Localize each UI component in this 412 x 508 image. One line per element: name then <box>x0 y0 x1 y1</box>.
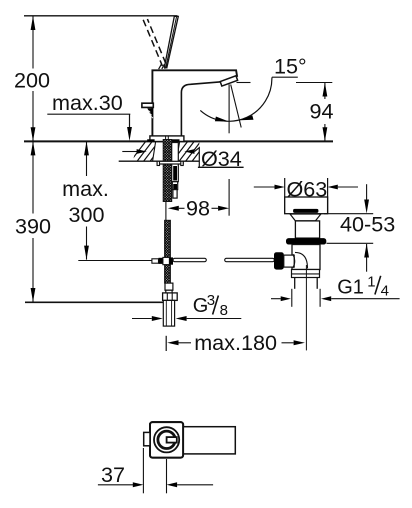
svg-text:200: 200 <box>14 68 50 93</box>
water stream lines <box>228 84 230 133</box>
dimension Ø34 <box>122 151 137 153</box>
svg-text:1: 1 <box>367 274 375 291</box>
drain knob <box>285 197 328 214</box>
drain body <box>292 245 320 270</box>
svg-text:15°: 15° <box>274 54 307 79</box>
drain flange flare <box>290 214 321 221</box>
pop-up rod horizontal <box>173 258 206 261</box>
svg-text:98: 98 <box>186 196 210 221</box>
lever (solid) <box>164 16 178 67</box>
15 degree arc <box>200 77 272 121</box>
drain: Ø63 dimension <box>254 186 275 188</box>
mounting plate under counter <box>157 161 183 164</box>
svg-text:max.180: max.180 <box>194 330 277 355</box>
threaded nipple G3/8 <box>163 300 174 326</box>
hose clamp at rod crossing <box>152 259 159 263</box>
pull rod segment below shank <box>165 202 167 221</box>
svg-text:G1: G1 <box>337 277 364 299</box>
counter hatching left <box>130 141 166 162</box>
svg-text:max.: max. <box>62 176 109 201</box>
tube right of shank <box>172 143 179 182</box>
drain neck <box>295 221 319 238</box>
shank (threaded, crosshatch) <box>163 140 172 202</box>
dimension 37 <box>142 448 144 493</box>
dimension 98 <box>228 179 230 216</box>
drain extension lines <box>284 178 286 214</box>
drain collar (thread) <box>292 270 320 278</box>
svg-text:4: 4 <box>381 283 389 300</box>
G1 1/4 extension lines + arrows <box>291 289 293 307</box>
side knob <box>274 252 284 269</box>
svg-text:3: 3 <box>207 292 215 309</box>
lever (dashed alternate position) <box>143 20 162 66</box>
G3/8 dimension arrows <box>132 318 152 320</box>
hose end fitting <box>165 283 173 290</box>
hose lower part <box>165 265 171 283</box>
svg-text:Ø34: Ø34 <box>201 146 242 171</box>
svg-text:37: 37 <box>101 462 125 487</box>
side handle <box>142 103 153 107</box>
svg-text:390: 390 <box>15 214 51 239</box>
counter bottom line <box>119 160 200 162</box>
counter top line <box>24 140 333 142</box>
hose nut <box>163 293 178 301</box>
dimension 40-53 <box>324 213 373 215</box>
top reference line <box>24 15 178 17</box>
drain washer <box>286 238 326 244</box>
faucet body <box>152 70 237 136</box>
bottom reference line (hose end) <box>25 301 164 303</box>
drain center line <box>305 265 307 350</box>
dimension 200 <box>32 16 34 141</box>
lever base ticks <box>159 64 167 69</box>
drain seal disc <box>293 209 318 213</box>
flexible hose (crosshatch) upper part <box>165 220 171 257</box>
svg-text:max.30: max.30 <box>52 90 123 115</box>
dimension max.180 <box>165 336 167 351</box>
dimension max.300 <box>86 141 88 259</box>
plan view (bottom) <box>150 422 183 458</box>
svg-text:8: 8 <box>220 302 228 319</box>
faucet base <box>150 136 184 142</box>
svg-text:300: 300 <box>68 202 104 227</box>
drain tailpipe <box>294 278 296 289</box>
dimension 390 <box>32 141 34 302</box>
svg-text:40-53: 40-53 <box>340 212 395 237</box>
svg-text:94: 94 <box>309 99 333 124</box>
rod extension line (left thin) <box>78 260 152 262</box>
counter hatching right <box>172 141 208 162</box>
aerator (spout outlet) <box>220 76 237 86</box>
dimension 94 <box>237 82 251 84</box>
